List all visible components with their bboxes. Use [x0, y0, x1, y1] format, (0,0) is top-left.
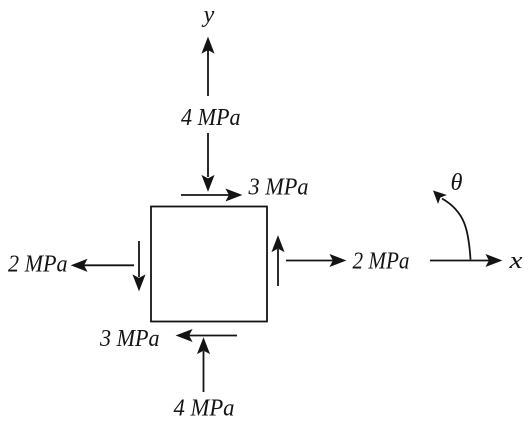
svg-text:2 MPa: 2 MPa: [353, 249, 410, 275]
svg-text:4 MPa: 4 MPa: [181, 105, 241, 131]
tau left arrow (down): [133, 241, 144, 290]
svg-text:θ: θ: [451, 170, 463, 196]
tau bottom arrow (left): [177, 330, 237, 341]
sigma-x left arrow (left): [72, 260, 134, 271]
svg-text:4 MPa: 4 MPa: [174, 396, 235, 422]
stress element square: [151, 207, 267, 322]
tau right arrow (up): [272, 237, 283, 287]
tau top arrow (right): [181, 189, 241, 200]
svg-text:3 MPa: 3 MPa: [248, 175, 309, 201]
svg-text:3 MPa: 3 MPa: [99, 326, 159, 352]
x axis arrow: [430, 255, 501, 266]
y axis arrow: [202, 38, 213, 96]
sigma-y bottom arrow (up): [198, 339, 209, 393]
sigma-y top arrow (down): [202, 133, 213, 191]
svg-text:2 MPa: 2 MPa: [8, 252, 68, 278]
svg-text:y: y: [202, 2, 215, 28]
svg-text:x: x: [508, 248, 523, 274]
theta arc: [434, 191, 471, 259]
sigma-x right arrow (right): [286, 255, 345, 266]
